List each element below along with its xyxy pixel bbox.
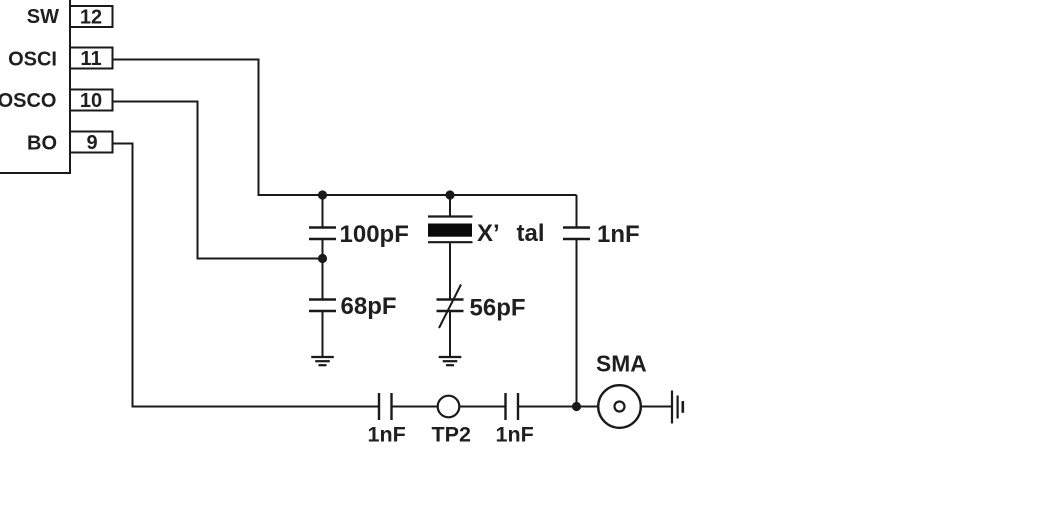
ground below 56pF — [439, 357, 462, 365]
pin number 12 — [80, 7, 102, 29]
pin number 11 — [80, 48, 101, 70]
svg-text:OSCO: OSCO — [0, 90, 57, 112]
value label 56pF — [470, 295, 526, 322]
capacitor 1nF (right branch) — [563, 195, 590, 407]
value label 68pF — [341, 293, 397, 320]
svg-text:12: 12 — [80, 7, 102, 29]
svg-text:X’: X’ — [477, 220, 500, 247]
capacitor 1nF (series, left of TP2) — [379, 393, 438, 420]
capacitor 68pF — [309, 300, 336, 357]
svg-text:1nF: 1nF — [597, 221, 640, 248]
capacitor 100pF — [309, 195, 336, 299]
pin number 9 — [86, 132, 97, 154]
svg-text:9: 9 — [86, 132, 97, 154]
wire SMA to ground — [641, 406, 672, 408]
svg-text:11: 11 — [80, 48, 101, 70]
ground below 68pF — [311, 357, 334, 365]
svg-text:BO: BO — [27, 133, 57, 155]
value label 100pF — [340, 221, 409, 248]
pin label SW — [27, 6, 59, 28]
value label 1nF (left of TP2) — [368, 423, 406, 447]
svg-text:tal: tal — [517, 220, 545, 247]
pin number 10 — [80, 90, 102, 112]
capacitor 1nF (series, right of TP2) — [459, 393, 597, 420]
SMA connector — [598, 385, 641, 428]
pin label BO — [27, 133, 57, 155]
label TP2 — [432, 423, 471, 447]
label SMA — [596, 351, 647, 377]
pin label OSCI — [8, 49, 57, 71]
test point TP2 — [438, 396, 460, 418]
wire OSCI (pin 11) to top rail — [113, 60, 577, 196]
crystal X'tal — [428, 195, 473, 299]
pin 11 box — [70, 48, 113, 69]
pin 10 box — [70, 90, 113, 111]
svg-text:1nF: 1nF — [368, 423, 406, 447]
svg-text:100pF: 100pF — [340, 221, 409, 248]
svg-text:1nF: 1nF — [496, 423, 534, 447]
pin 12 box — [70, 6, 113, 27]
svg-text:68pF: 68pF — [341, 293, 397, 320]
node junction OSCO / 100pF-68pF — [318, 254, 327, 263]
wire BO (pin 9) to bottom rail — [113, 144, 380, 407]
svg-text:10: 10 — [80, 90, 102, 112]
IC body right edge — [0, 0, 71, 173]
svg-text:SW: SW — [27, 6, 59, 28]
svg-text:56pF: 56pF — [470, 295, 526, 322]
value label 1nF (right branch) — [597, 221, 640, 248]
node junction top rail / crystal — [445, 190, 454, 199]
node junction top rail / 100pF — [318, 190, 327, 199]
svg-text:TP2: TP2 — [432, 423, 471, 447]
pin 9 box — [70, 132, 113, 153]
pin label OSCO — [0, 90, 57, 112]
node junction 1nF branch / bottom rail — [572, 402, 581, 411]
value label 1nF (right of TP2) — [496, 423, 534, 447]
ground right of SMA (rotated) — [672, 391, 683, 424]
variable capacitor 56pF — [437, 285, 464, 357]
value label X'tal — [477, 220, 545, 247]
svg-text:SMA: SMA — [596, 351, 647, 377]
svg-text:OSCI: OSCI — [8, 49, 57, 71]
wire OSCO (pin 10) to node A — [113, 102, 323, 259]
